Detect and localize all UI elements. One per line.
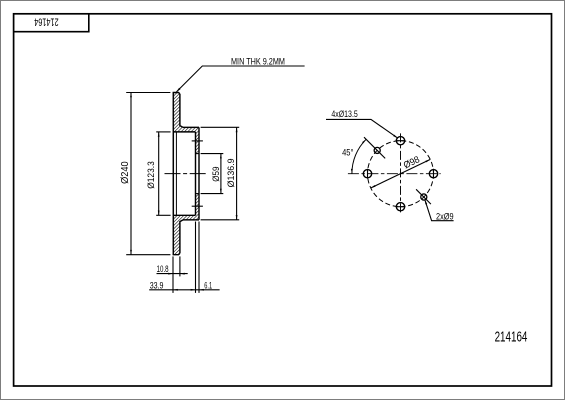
ext line wall outer down: [198, 222, 200, 293]
flange underside lower: [173, 214, 195, 216]
label 2xØ9 leader: [425, 200, 454, 221]
bolt hole centre tick lower: [192, 205, 203, 207]
bolt hole right Ø13.5: [429, 170, 437, 178]
dim Ø136.9 extension lines: [201, 126, 240, 128]
svg-text:45°: 45°: [342, 147, 353, 158]
svg-text:10.8: 10.8: [157, 264, 169, 275]
ring inner bore line: [175, 132, 177, 215]
axis centre line left view: [165, 173, 207, 175]
disc top edge: [173, 93, 180, 94]
bolt hole left Ø13.5: [363, 170, 371, 178]
ext line disc left face down: [172, 256, 174, 293]
dim Ø136.9 line: [236, 127, 238, 220]
svg-text:4xØ13.5: 4xØ13.5: [331, 109, 358, 119]
label 4xØ13.5 leader: [326, 119, 398, 138]
friction ring right face lower: [180, 220, 183, 253]
bolt hole top Ø13.5: [396, 137, 404, 145]
hat flange top edge: [183, 126, 199, 128]
svg-text:33.9: 33.9: [150, 279, 164, 290]
hat flange bottom edge (lower): [183, 219, 199, 221]
small hole upper-left 2xØ9: [374, 147, 380, 153]
centre hole upper edge: [196, 153, 200, 155]
svg-text:2xØ9: 2xØ9: [436, 211, 454, 222]
dim Ø240 extension lines: [126, 92, 170, 94]
small hole lower-right 2xØ9: [421, 194, 427, 200]
ext line wall inner down: [195, 222, 197, 293]
dim Ø123.3 line: [158, 132, 160, 215]
radial line 135deg: [364, 137, 385, 158]
radial line -45deg: [416, 189, 431, 204]
svg-text:Ø240: Ø240: [120, 161, 131, 184]
ext line ring right face down: [179, 256, 181, 276]
horizontal centre line right view: [348, 173, 441, 175]
dim Ø123.3 extension lines: [156, 131, 170, 133]
disc section upper hatched region: [173, 93, 199, 154]
title box: [14, 14, 89, 32]
svg-text:Ø136.9: Ø136.9: [226, 158, 236, 187]
dim 10.8 line: [157, 273, 188, 275]
dim Ø59 line: [220, 154, 222, 194]
dim Ø98 diagonal: [371, 159, 431, 188]
svg-text:Ø123.3: Ø123.3: [145, 161, 156, 189]
45 deg dimension arc: [352, 139, 366, 173]
svg-text:214164: 214164: [495, 329, 528, 345]
bolt hole centre tick upper: [192, 140, 203, 142]
svg-text:6.1: 6.1: [204, 280, 212, 291]
hub wall inner face: [195, 132, 197, 215]
bolt hole bottom Ø13.5: [396, 203, 404, 211]
bolt circle Ø98 (dashed): [368, 141, 434, 207]
disc outer face (left): [172, 93, 174, 255]
dim Ø59 extension lines: [201, 153, 224, 155]
friction ring right face upper: [180, 94, 183, 127]
dim Ø240 line: [130, 93, 132, 255]
svg-text:214164: 214164: [34, 16, 58, 28]
flange underside upper: [173, 131, 195, 133]
svg-text:MIN THK 9.2MM: MIN THK 9.2MM: [231, 56, 285, 67]
hub wall outer face: [198, 127, 200, 220]
disc bottom edge: [173, 253, 180, 254]
svg-text:Ø59: Ø59: [210, 166, 221, 181]
centre hole lower edge: [196, 193, 200, 195]
dim 33.9 / 6.1 line: [149, 289, 219, 291]
vertical centre line right view: [400, 133, 402, 214]
disc section lower hatched region: [173, 194, 199, 255]
MIN THK leader: [176, 66, 304, 92]
